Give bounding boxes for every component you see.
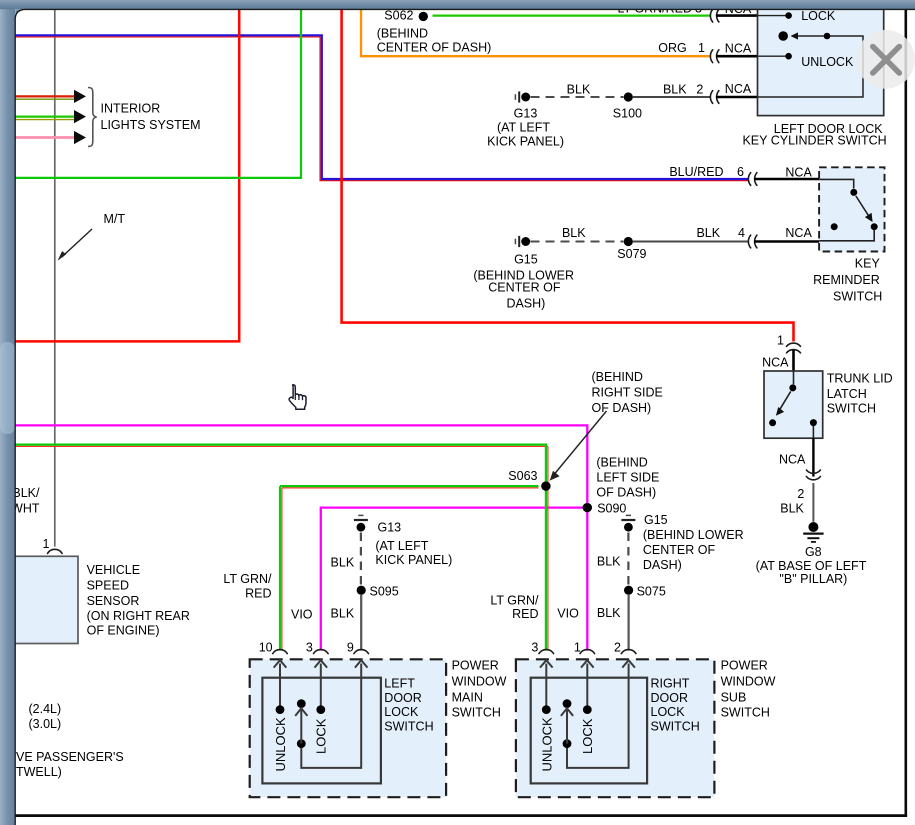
svg-text:OF ENGINE): OF ENGINE) [87,624,160,638]
wire: green from S062 to pin 3 [433,14,711,16]
svg-text:(BEHIND LOWER: (BEHIND LOWER [643,528,744,542]
box power window main switch [250,659,446,797]
pin 10 arrow into left switch [274,660,287,667]
wire: RED/GRN interior lights feed 1 stripe [15,98,75,100]
wire: VIO branch to left switch pin 3 [321,508,588,651]
svg-text:LOCK: LOCK [580,718,595,754]
svg-text:1: 1 [777,334,784,348]
svg-text:WINDOW: WINDOW [721,675,776,689]
svg-text:BLK/: BLK/ [12,486,40,500]
svg-text:WINDOW: WINDOW [452,675,507,689]
svg-text:(2.4L): (2.4L) [29,702,62,716]
svg-text:RED: RED [512,607,538,621]
svg-text:"B" PILLAR): "B" PILLAR) [779,572,847,586]
box power window sub switch [516,659,715,797]
splice S090 [583,503,592,512]
switch trunk lid latch [793,371,795,384]
pin 3 arrow into left switch [315,660,328,667]
connector pin 6 key reminder [748,173,750,186]
svg-text:NCA: NCA [725,42,752,56]
wire: LT GRN/RED stripe main [15,446,548,650]
splice S100 [624,92,633,101]
svg-text:LOCK: LOCK [651,705,686,719]
svg-text:(ON RIGHT REAR: (ON RIGHT REAR [87,609,190,623]
splice S063 [541,481,550,490]
connector pin 4 key reminder [748,235,750,248]
svg-text:KICK PANEL): KICK PANEL) [487,135,564,149]
svg-text:NCA: NCA [779,452,806,466]
svg-text:LT GRN/: LT GRN/ [223,572,272,586]
svg-text:BLK: BLK [331,606,355,620]
svg-text:9: 9 [347,641,354,655]
ground G15 (bottom) [626,514,631,516]
svg-text:VEHICLE: VEHICLE [87,563,141,577]
svg-text:S100: S100 [613,106,642,120]
svg-text:S079: S079 [617,247,646,261]
svg-text:LEFT: LEFT [384,677,415,691]
svg-text:S063: S063 [508,469,537,483]
wire: ORG to pin 1 [361,9,710,56]
svg-text:REMINDER: REMINDER [813,273,880,287]
wire: LT GRN/RED branch stripe [282,488,539,651]
pin 2 arrow into right switch [622,660,635,667]
svg-text:4: 4 [738,226,745,240]
wire: red vertical C to trunk lid latch switch [342,9,794,342]
cursor hand pointer [289,385,306,410]
svg-text:SWITCH: SWITCH [833,289,882,303]
connector pin 3 key cylinder [710,9,712,22]
pin caps left switch [273,650,288,654]
frame left strip [0,0,15,825]
arrow interior lights 1 [74,90,86,103]
svg-text:DASH): DASH) [643,558,682,572]
svg-text:LOCK: LOCK [384,705,419,719]
pin 1 arrow into right switch [581,660,594,667]
svg-text:BLK: BLK [331,556,355,570]
svg-text:SWITCH: SWITCH [452,706,501,720]
splice S095 [357,586,366,595]
wire BLK dashed G15 to S075 [627,533,629,586]
wire: BLK dashed G15 to S079 [531,241,624,243]
svg-text:3: 3 [306,641,313,655]
svg-text:(BEHIND: (BEHIND [596,455,647,469]
svg-text:SUB: SUB [721,691,747,705]
wire BLK dashed G13 to S095 [360,533,362,586]
svg-text:POWER: POWER [721,658,768,672]
svg-text:1: 1 [43,537,50,551]
svg-text:UNLOCK: UNLOCK [273,717,288,772]
wire: GRN/YEL interior lights feed 2 stripe [15,119,75,121]
svg-text:BLK: BLK [597,606,621,620]
arrow interior lights 2 [74,110,86,123]
svg-text:NCA: NCA [785,165,812,179]
box left door lock key cylinder switch [758,1,884,116]
svg-text:SENSOR: SENSOR [87,594,140,608]
wire: BLK S079 to pin 4 [633,241,748,243]
box vehicle speed sensor [10,556,78,643]
svg-text:ORG: ORG [658,41,686,55]
switch arm key cylinder [758,36,864,97]
svg-text:2: 2 [614,641,621,655]
wire: VIO main magenta net [15,425,587,650]
svg-text:NCA: NCA [785,226,812,240]
svg-text:3: 3 [531,641,538,655]
svg-text:G13: G13 [514,106,538,120]
diagram border right [904,9,907,817]
svg-text:RED: RED [245,587,271,601]
svg-text:LT GRN/: LT GRN/ [490,594,539,608]
svg-text:BLK: BLK [567,82,591,96]
svg-text:BLK: BLK [663,82,687,96]
svg-text:2: 2 [696,82,703,96]
wire: gray vertical BLK/WHT to vehicle speed sensor [54,9,56,547]
svg-text:6: 6 [737,165,744,179]
wire: PNK interior lights feed 3 [15,136,75,139]
arm arrow right door lock switch [566,710,568,744]
box right door lock switch [531,678,647,784]
svg-text:TWELL): TWELL) [16,765,62,779]
pin caps right switch [539,650,554,654]
box key reminder switch [819,167,884,251]
svg-text:BLK: BLK [780,502,804,516]
splice S079 [624,237,633,246]
svg-text:SWITCH: SWITCH [384,720,433,734]
svg-text:CENTER OF: CENTER OF [643,543,716,557]
svg-text:BLK: BLK [597,554,621,568]
wire BLK S075 to pin 2 [627,595,629,651]
svg-text:G15: G15 [644,513,668,527]
close button [856,30,915,89]
frame corner patch [15,9,25,20]
svg-text:SPEED: SPEED [87,579,129,593]
contacts right door lock switch [542,705,551,714]
svg-text:LIGHTS SYSTEM: LIGHTS SYSTEM [101,118,201,132]
svg-text:MAIN: MAIN [452,691,483,705]
svg-text:VIO: VIO [291,607,313,621]
svg-text:S095: S095 [370,585,399,599]
svg-text:VE PASSENGER'S: VE PASSENGER'S [16,750,124,764]
svg-text:(AT LEFT: (AT LEFT [375,539,428,553]
svg-text:OF DASH): OF DASH) [596,486,656,500]
svg-text:(BEHIND: (BEHIND [592,370,643,384]
arm arrow left door lock switch [300,710,302,744]
svg-text:2: 2 [797,487,804,501]
svg-text:INTERIOR: INTERIOR [101,102,161,116]
svg-text:KICK PANEL): KICK PANEL) [375,553,452,567]
svg-text:OF DASH): OF DASH) [592,401,652,415]
svg-text:KEY CYLINDER SWITCH: KEY CYLINDER SWITCH [742,134,886,148]
svg-text:RIGHT: RIGHT [651,677,690,691]
wire BLK trunk to G8 [812,483,814,522]
wire: LT GRN/RED main net [15,445,546,651]
svg-text:DOOR: DOOR [384,691,422,705]
svg-text:10: 10 [259,641,273,655]
arrow interior lights 3 [74,131,86,144]
contact LOCK [758,15,786,17]
svg-text:BLK: BLK [696,226,720,240]
svg-text:G8: G8 [805,545,822,559]
svg-text:NCA: NCA [725,82,752,96]
svg-text:M/T: M/T [104,212,126,226]
connector pin 2 key cylinder [710,91,712,104]
svg-text:POWER: POWER [452,658,499,672]
contacts left door lock switch [276,705,285,714]
svg-text:CENTER OF: CENTER OF [488,280,561,294]
svg-text:S075: S075 [637,585,666,599]
svg-text:(AT BASE OF LEFT: (AT BASE OF LEFT [756,559,867,573]
ground G8 [808,522,818,532]
wire: red vertical A with corner to left edge [15,9,239,341]
wire: BLU/RED blue main [15,35,748,179]
brace interior lights system [88,88,97,147]
svg-text:1: 1 [574,641,581,655]
wire BLK S095 to pin 9 [360,595,362,651]
svg-text:LOCK: LOCK [801,9,836,23]
svg-text:LATCH: LATCH [827,387,867,401]
wire: BLU/RED red stripe [15,37,748,181]
svg-text:CENTER OF DASH): CENTER OF DASH) [377,41,492,55]
ground G13 (top) [514,94,516,100]
svg-text:UNLOCK: UNLOCK [801,55,854,69]
switch key reminder [819,179,854,188]
wire trunk pin 2 to connector [812,438,814,476]
wire: BLK S100 to pin 2 [633,96,710,98]
wire: green vertical B with corner to left edge [15,9,301,178]
svg-text:1: 1 [698,41,705,55]
svg-text:LEFT SIDE: LEFT SIDE [596,471,659,485]
svg-text:SWITCH: SWITCH [827,401,876,415]
svg-text:G13: G13 [378,521,402,535]
svg-text:DOOR: DOOR [651,691,689,705]
svg-text:LOCK: LOCK [314,718,329,754]
svg-text:DASH): DASH) [506,297,545,311]
svg-text:S090: S090 [597,502,626,516]
svg-text:RIGHT SIDE: RIGHT SIDE [592,386,663,400]
svg-text:(3.0L): (3.0L) [29,717,62,731]
svg-text:G15: G15 [514,252,538,266]
frame top bar [0,0,915,9]
svg-text:(AT LEFT: (AT LEFT [497,120,550,134]
svg-text:KEY: KEY [855,257,881,271]
wire: RED/GRN interior lights feed 1 [15,95,75,97]
pin 3 arrow into right switch [540,660,553,667]
svg-text:TRUNK LID: TRUNK LID [827,372,893,386]
svg-text:SWITCH: SWITCH [651,720,700,734]
box trunk lid latch switch [764,371,823,438]
svg-text:UNLOCK: UNLOCK [540,717,555,772]
wire: BLK dashed G13 to S100 [531,96,624,98]
svg-text:VIO: VIO [557,606,579,620]
svg-text:SWITCH: SWITCH [721,706,770,720]
contact UNLOCK [758,55,786,57]
svg-text:BLK: BLK [562,226,586,240]
svg-text:S062: S062 [384,9,413,23]
svg-text:NCA: NCA [762,356,789,370]
ground G15 (top) [514,239,516,245]
svg-text:BLU/RED: BLU/RED [669,165,723,179]
svg-text:(BEHIND: (BEHIND [377,26,428,40]
pin 9 arrow into left switch [355,660,368,667]
diagram border bottom [15,814,907,817]
wire: LT GRN/RED branch to left switch pin 10 [280,486,539,650]
wire: GRN/YEL interior lights feed 2 [15,115,75,117]
box left door lock switch [262,678,381,784]
splice S075 [624,586,633,595]
ground G13 (bottom) [358,514,363,516]
connector pin 1 key cylinder [710,50,712,63]
